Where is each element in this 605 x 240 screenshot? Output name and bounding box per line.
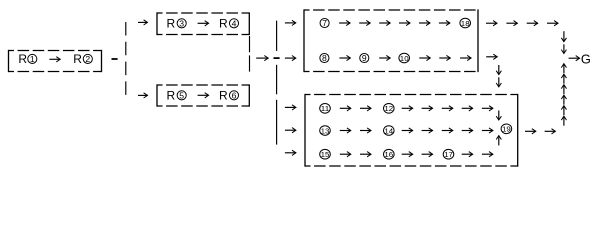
arrow row8 exit: [486, 54, 497, 59]
arrow R1 to R2: [49, 57, 60, 62]
arrow row11 #4: [422, 106, 433, 111]
arrow 8 to 9: [339, 55, 350, 60]
arrow into R3-R4 box: [138, 20, 148, 25]
node 9: [360, 53, 369, 63]
arrow into box row 11: [285, 105, 296, 110]
arrow 9 to 10: [379, 55, 390, 60]
wire split line mid lower: [276, 100, 278, 145]
box stage R5-R6: [157, 84, 249, 106]
arrow row13 #6: [462, 128, 473, 133]
arrow row11 #6: [462, 106, 473, 111]
arrow up to G #1: [561, 64, 566, 73]
arrow row13 #1: [340, 128, 351, 133]
node 15: [320, 149, 331, 159]
svg-text:10: 10: [400, 54, 409, 63]
arrow row15 #4: [422, 152, 433, 157]
arrow down to 19 #2: [496, 77, 501, 87]
arrow junction left: [256, 56, 268, 61]
arrow row13 #4: [422, 128, 433, 133]
node 17: [443, 149, 454, 159]
svg-text:4: 4: [232, 18, 237, 28]
arrow row15 #2: [360, 152, 371, 157]
svg-text:13: 13: [321, 126, 330, 135]
wire dash from R1R2 box: [112, 58, 118, 60]
arrow row11 #1: [340, 106, 351, 111]
svg-text:9: 9: [362, 53, 367, 63]
arrow top chain #2: [506, 21, 517, 26]
arrow top chain #3: [527, 21, 538, 26]
wire split line mid middle: [276, 65, 278, 95]
arrow 19 exit #1: [525, 129, 536, 134]
arrow junction right into box row 8: [285, 56, 296, 61]
arrow row15 #3: [402, 152, 413, 157]
arrow down to G #2: [561, 44, 566, 53]
svg-text:R: R: [18, 52, 27, 66]
svg-text:16: 16: [384, 150, 393, 159]
arrow row7 #6: [439, 20, 450, 25]
arrow top chain #1: [486, 21, 497, 26]
node 14: [384, 126, 395, 136]
node 4: [229, 18, 238, 28]
arrow row11 #2: [360, 106, 371, 111]
arrow row11 #5: [442, 106, 453, 111]
arrow 19 exit #2: [545, 129, 556, 134]
svg-text:R: R: [73, 52, 82, 66]
wire split line left: [125, 22, 127, 95]
arrow row11 #3: [402, 106, 413, 111]
node 3: [177, 18, 186, 28]
svg-text:14: 14: [384, 126, 393, 135]
svg-text:R: R: [167, 89, 176, 103]
arrow row8 #1: [419, 55, 430, 60]
wire split line mid upper: [276, 21, 278, 51]
svg-text:12: 12: [384, 104, 393, 113]
svg-text:8: 8: [322, 53, 327, 63]
node 13: [320, 126, 331, 136]
svg-text:R: R: [167, 17, 176, 31]
svg-text:R: R: [219, 89, 228, 103]
svg-text:6: 6: [232, 90, 237, 100]
arrow row7 #4: [399, 20, 410, 25]
arrow row15 #6: [482, 152, 493, 157]
node 6: [229, 90, 238, 100]
node 11: [320, 104, 331, 114]
box stage R3-R4: [157, 12, 249, 35]
box stage 11-19: [305, 94, 518, 167]
svg-text:7: 7: [322, 18, 327, 28]
arrow into G: [569, 56, 580, 61]
arrow row8 #2: [439, 55, 450, 60]
arrow up to G #5: [561, 106, 566, 116]
arrow top chain #4: [547, 21, 558, 26]
arrow up to G #2: [561, 74, 566, 84]
node 16: [384, 149, 395, 159]
node 5: [177, 90, 186, 100]
arrow row7 #3: [379, 20, 390, 25]
box stage 7-18: [304, 9, 478, 72]
node 8: [320, 53, 329, 63]
arrow into box row 7: [285, 20, 296, 25]
svg-text:R: R: [219, 17, 228, 31]
arrow into R5-R6 box: [138, 93, 148, 98]
arrow down into 19: [496, 111, 501, 121]
svg-text:1: 1: [30, 54, 35, 64]
svg-text:3: 3: [179, 18, 184, 28]
svg-text:19: 19: [502, 125, 511, 134]
arrow row13 #3: [402, 128, 413, 133]
arrow R5 to R6: [198, 93, 209, 98]
arrow up into 19: [496, 136, 501, 146]
arrow row8 #3: [460, 55, 471, 60]
svg-text:18: 18: [461, 19, 470, 28]
arrow row15 #1: [340, 152, 351, 157]
arrow row7 #2: [359, 20, 370, 25]
node 2: [83, 54, 92, 64]
svg-text:2: 2: [85, 54, 90, 64]
svg-text:5: 5: [179, 90, 184, 100]
arrow R3 to R4: [198, 21, 209, 26]
node 18: [460, 18, 471, 28]
node 7: [320, 18, 329, 28]
svg-text:G: G: [581, 51, 591, 66]
svg-text:11: 11: [321, 104, 330, 113]
arrow row11 #7: [482, 106, 493, 111]
arrow into box row 15: [285, 150, 296, 155]
node 10: [399, 53, 410, 63]
arrow down to 19 #1: [496, 65, 501, 75]
arrow row7 #1: [339, 20, 350, 25]
svg-text:17: 17: [444, 150, 453, 159]
wire join line right of R3R4 R5R6: [249, 36, 251, 75]
arrow row7 #5: [419, 20, 430, 25]
svg-text:15: 15: [321, 150, 330, 159]
box stage R1-R2: [9, 50, 102, 72]
wire dash junction: [274, 57, 280, 59]
arrow up to G #4: [561, 95, 566, 105]
arrow into box row 13: [285, 128, 296, 133]
node 1: [28, 54, 37, 64]
arrow row15 #5: [462, 152, 473, 157]
arrow row13 #5: [442, 128, 453, 133]
arrow up to G #3: [561, 85, 566, 95]
node 12: [384, 104, 395, 114]
arrow up to G #6: [561, 116, 566, 126]
arrow row13 #7: [482, 128, 493, 133]
node 19: [501, 124, 512, 134]
arrow down to G #1: [561, 31, 566, 42]
arrow row13 #2: [360, 128, 371, 133]
